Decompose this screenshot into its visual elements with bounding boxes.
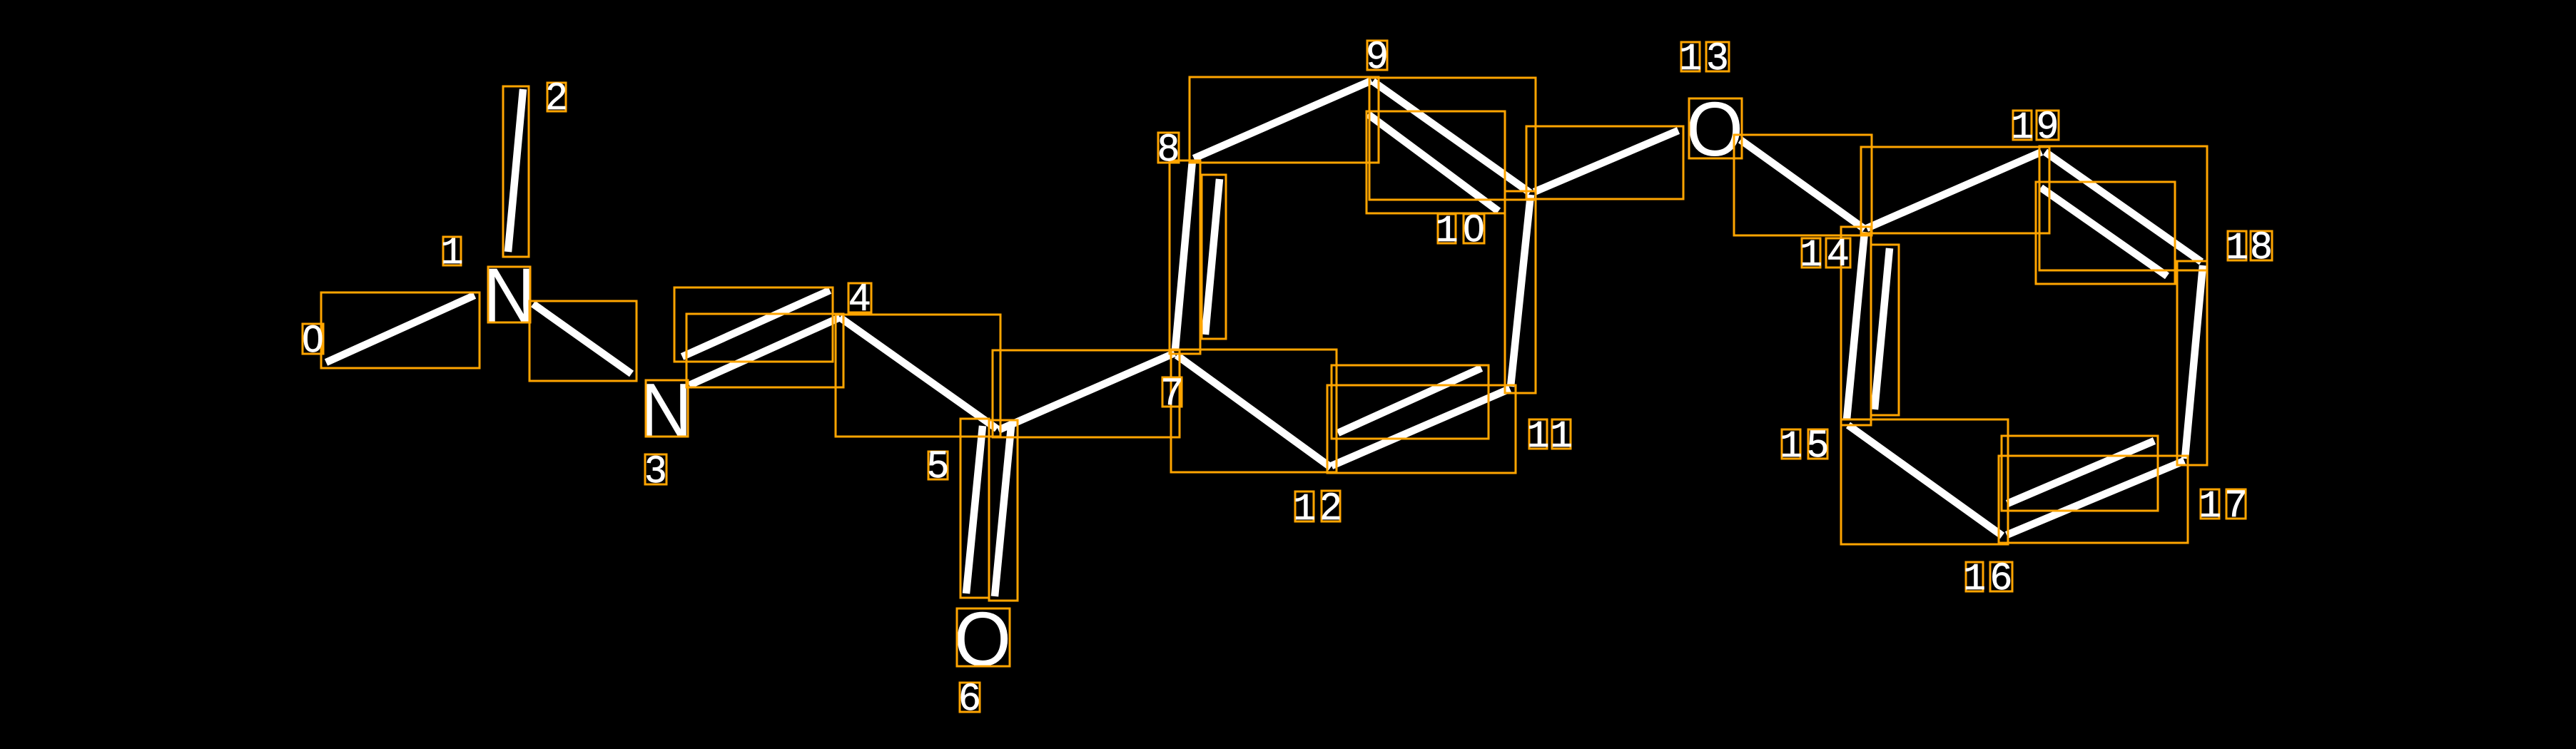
svg-text:N: N: [483, 252, 535, 338]
box bond 7=8 main line: [1170, 160, 1200, 354]
box bond 8-9: [1190, 77, 1379, 163]
wire bond 16=17 main line: [2007, 461, 2184, 535]
svg-text:4: 4: [849, 277, 870, 319]
box bond 3=4 upper line: [674, 287, 833, 362]
svg-text:1: 1: [1527, 415, 1550, 458]
node label 15: [1780, 423, 1828, 468]
svg-text:5: 5: [928, 444, 948, 486]
wire bond 18=19 inner line: [2041, 188, 2167, 276]
wire bond 15-16: [1848, 425, 2002, 536]
node label 8: [1158, 127, 1179, 169]
box bond 15-16: [1841, 419, 2008, 544]
box bond 5=6 left line: [960, 419, 989, 598]
svg-text:1: 1: [2199, 485, 2221, 528]
box bond 9=10 inner line: [1366, 111, 1505, 213]
node label 7: [1162, 371, 1182, 413]
box bond 1-3: [529, 301, 637, 381]
wire bond 5=6 left line: [966, 426, 983, 593]
wire bond 9=10 inner line: [1368, 114, 1499, 211]
wire bond 3=4 upper line: [682, 290, 830, 357]
box bond 11=12 inner line: [1332, 365, 1489, 439]
node label 2: [546, 76, 567, 118]
wire bond 17-18: [2185, 265, 2203, 459]
svg-text:6: 6: [1991, 556, 2012, 598]
svg-text:3: 3: [1707, 36, 1728, 78]
svg-text:1: 1: [1800, 234, 1822, 277]
svg-text:7: 7: [2226, 483, 2246, 525]
box bond 1-2: [503, 86, 529, 257]
wire bond 16=17 inner line: [2007, 441, 2154, 504]
node label 19: [2011, 104, 2059, 149]
wire bond 1-2 (N1-C2): [508, 89, 523, 252]
box bond 10-O13: [1526, 126, 1683, 199]
svg-text:7: 7: [1162, 371, 1182, 413]
box bond 3=4 main line: [686, 314, 843, 387]
wire bond 14=15 main line: [1847, 232, 1865, 419]
box bond 14=15 inner line: [1871, 245, 1899, 415]
box bond 17-18: [2177, 261, 2207, 465]
svg-text:1: 1: [2011, 106, 2034, 149]
box atom O13 glyph: [1689, 98, 1742, 158]
box bond 9=10 main line: [1369, 78, 1536, 200]
box bond 14-19: [1861, 147, 2049, 233]
wire bond 8-9: [1194, 81, 1371, 158]
node label 1: [441, 232, 464, 275]
svg-text:0: 0: [1464, 208, 1484, 250]
wire bond 14=15 inner line: [1875, 248, 1890, 409]
box bond 0-1: [321, 292, 480, 368]
svg-text:0: 0: [303, 318, 323, 360]
wire bond 1-3 (N1-N3): [533, 304, 632, 374]
node label 0: [303, 318, 323, 360]
wire bond 12-7: [1177, 355, 1331, 467]
svg-text:1: 1: [1780, 425, 1802, 468]
box bond 18=19 main line: [2039, 146, 2207, 270]
svg-text:1: 1: [1293, 488, 1316, 531]
wire bond 7=8 inner line: [1205, 179, 1219, 335]
svg-text:9: 9: [2037, 104, 2058, 146]
node label 16: [1963, 556, 2012, 601]
node label 13: [1679, 36, 1729, 81]
box bond 16=17 inner line: [2002, 436, 2158, 511]
box atom N1 glyph: [488, 267, 530, 322]
wire bond 11=12 inner line: [1338, 368, 1481, 433]
node label 12: [1293, 486, 1342, 531]
wire bond 10-O13: [1534, 131, 1678, 192]
node label 6: [959, 676, 980, 718]
box bond 4-5: [836, 315, 1000, 437]
box atom N3 glyph: [646, 380, 688, 437]
box bond 12-7: [1171, 350, 1337, 472]
wire bond 14-19: [1867, 152, 2042, 228]
svg-text:1: 1: [2226, 227, 2248, 270]
wire bond 5-7: [998, 353, 1175, 430]
box bond O13-14: [1734, 135, 1872, 235]
box atom O6 glyph: [957, 608, 1010, 666]
node label 4: [848, 277, 871, 319]
node label 17: [2199, 483, 2246, 528]
svg-text:2: 2: [1320, 486, 1341, 528]
svg-text:1: 1: [1550, 415, 1573, 458]
svg-text:8: 8: [1158, 127, 1179, 169]
wire bond 10-11: [1511, 195, 1531, 387]
box bond 5=6 right line: [989, 420, 1018, 601]
node label 10: [1436, 208, 1485, 253]
svg-text:4: 4: [1827, 232, 1848, 274]
box bond 7=8 inner line: [1202, 175, 1226, 339]
svg-text:1: 1: [1679, 38, 1702, 81]
box bond 16=17 main line: [1999, 456, 2188, 543]
wire bond O13-14: [1740, 140, 1865, 229]
node label 14: [1800, 232, 1850, 277]
wire bond 5=6 right line: [995, 427, 1011, 596]
box bond 5-7: [993, 350, 1180, 437]
svg-text:2: 2: [546, 76, 567, 118]
wire bond 9=10 main line: [1373, 81, 1530, 193]
node label 11: [1527, 415, 1573, 458]
wire bond 4-5: [840, 317, 997, 429]
box bond 14=15 main line: [1841, 227, 1871, 425]
wire bond 0-1 (C0-N1): [326, 295, 475, 362]
svg-text:9: 9: [1366, 34, 1387, 76]
wire bond 7=8 main line: [1175, 160, 1192, 350]
svg-text:3: 3: [645, 449, 666, 491]
box bond 18=19 inner line: [2036, 182, 2175, 284]
wire bond 11=12 main line: [1332, 389, 1510, 466]
box bond 11=12 main line: [1327, 385, 1516, 473]
wire bond 18=19 main line: [2045, 152, 2201, 262]
svg-text:1: 1: [1436, 210, 1459, 253]
node label 9: [1366, 34, 1387, 76]
svg-text:5: 5: [1807, 423, 1828, 465]
svg-text:8: 8: [2251, 225, 2271, 267]
svg-text:1: 1: [441, 232, 464, 275]
node label 5: [928, 444, 948, 486]
node label 3: [645, 449, 666, 491]
node label 18: [2226, 225, 2272, 270]
svg-text:1: 1: [1963, 558, 1986, 601]
wire bond 3=4 main line: [689, 317, 840, 385]
svg-text:6: 6: [959, 676, 980, 718]
box bond 10-11: [1505, 191, 1536, 393]
